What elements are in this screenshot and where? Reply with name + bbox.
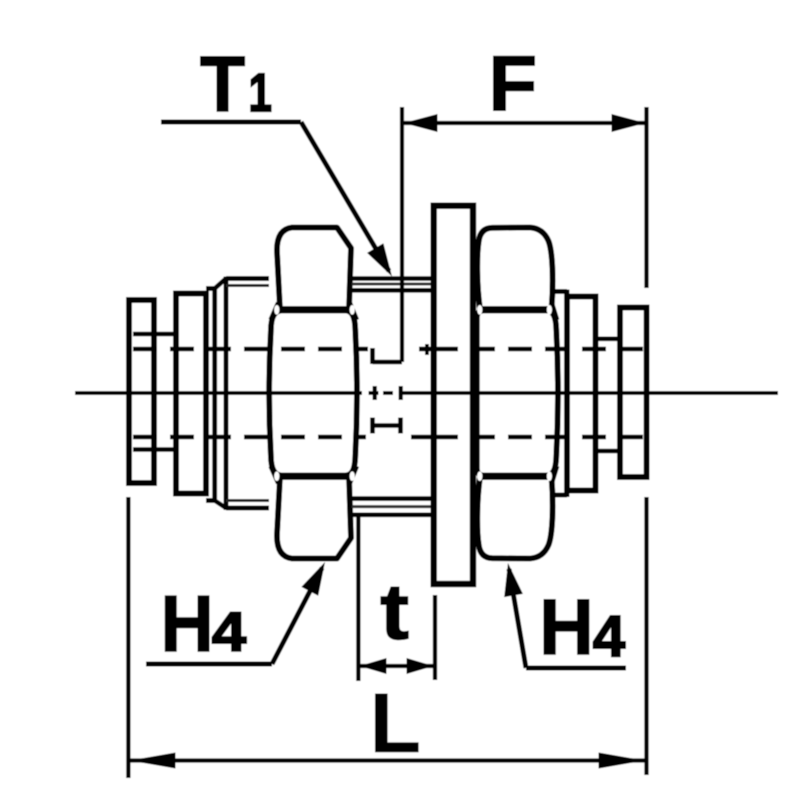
svg-text:L: L bbox=[370, 676, 421, 770]
thread root top-right bbox=[352, 283, 434, 286]
svg-text:t: t bbox=[380, 568, 409, 656]
thread crest top-right bbox=[352, 276, 434, 281]
right hex nut bottom lobe bbox=[477, 477, 552, 559]
left collar neck bbox=[133, 332, 176, 337]
threaded rod left chamfer bbox=[215, 279, 226, 289]
svg-text:4: 4 bbox=[593, 604, 626, 669]
centerline (horizontal axis) bbox=[75, 391, 362, 395]
svg-text:H: H bbox=[539, 584, 594, 672]
t extension lines bbox=[356, 516, 360, 681]
tube stop bracket lower (I-beam) bbox=[373, 423, 401, 428]
svg-text:1: 1 bbox=[249, 63, 272, 123]
svg-text:H: H bbox=[161, 581, 214, 669]
bulkhead panel plate bbox=[434, 206, 473, 584]
body line bottom-right bbox=[352, 496, 434, 501]
F right extension line bbox=[644, 107, 648, 288]
right collar neck bbox=[596, 336, 621, 341]
upper bore hidden line (dashed) bbox=[133, 347, 368, 352]
right cartridge flange bbox=[567, 297, 596, 491]
left cartridge band bbox=[206, 286, 215, 291]
thread crest bottom-left bbox=[226, 506, 269, 511]
right hex chamfer seals bbox=[552, 303, 557, 320]
thread root top-left bbox=[226, 284, 269, 287]
svg-text:F: F bbox=[488, 39, 537, 127]
H4 left leader line bbox=[146, 662, 272, 667]
body line top-right bbox=[352, 288, 434, 293]
left hex pinch lens gaps bbox=[274, 305, 279, 315]
L extension lines bbox=[126, 497, 130, 778]
L dimension line bbox=[129, 758, 645, 762]
T1 leader line bbox=[161, 120, 301, 125]
left hex chamfer seals bbox=[271, 303, 279, 320]
F dimension line bbox=[403, 121, 646, 125]
svg-text:4: 4 bbox=[212, 602, 247, 663]
thread root bottom-left bbox=[226, 499, 269, 502]
right hex pinch lens gaps bbox=[477, 305, 482, 315]
tube stop bracket upper bbox=[400, 107, 404, 362]
thread crest bottom-right bbox=[352, 512, 434, 517]
right collar flange bbox=[620, 308, 647, 478]
right hex nut top lobe bbox=[477, 228, 552, 310]
thread crest top-left bbox=[226, 276, 269, 281]
H4 right leader line bbox=[526, 666, 626, 671]
left hex nut bottom lobe bbox=[277, 477, 351, 559]
left cartridge flange bbox=[176, 294, 206, 494]
t dimension line bbox=[359, 664, 434, 668]
thread root bottom-right bbox=[352, 505, 434, 508]
left collar flange bbox=[129, 300, 154, 483]
left hex nut top lobe bbox=[277, 228, 351, 310]
left hex nut middle lobe bbox=[269, 311, 357, 476]
svg-text:T: T bbox=[200, 41, 245, 129]
lower bore hidden line (dashed) bbox=[133, 435, 366, 440]
right hex nut middle lobe bbox=[477, 311, 558, 476]
right cartridge band bbox=[554, 289, 567, 294]
